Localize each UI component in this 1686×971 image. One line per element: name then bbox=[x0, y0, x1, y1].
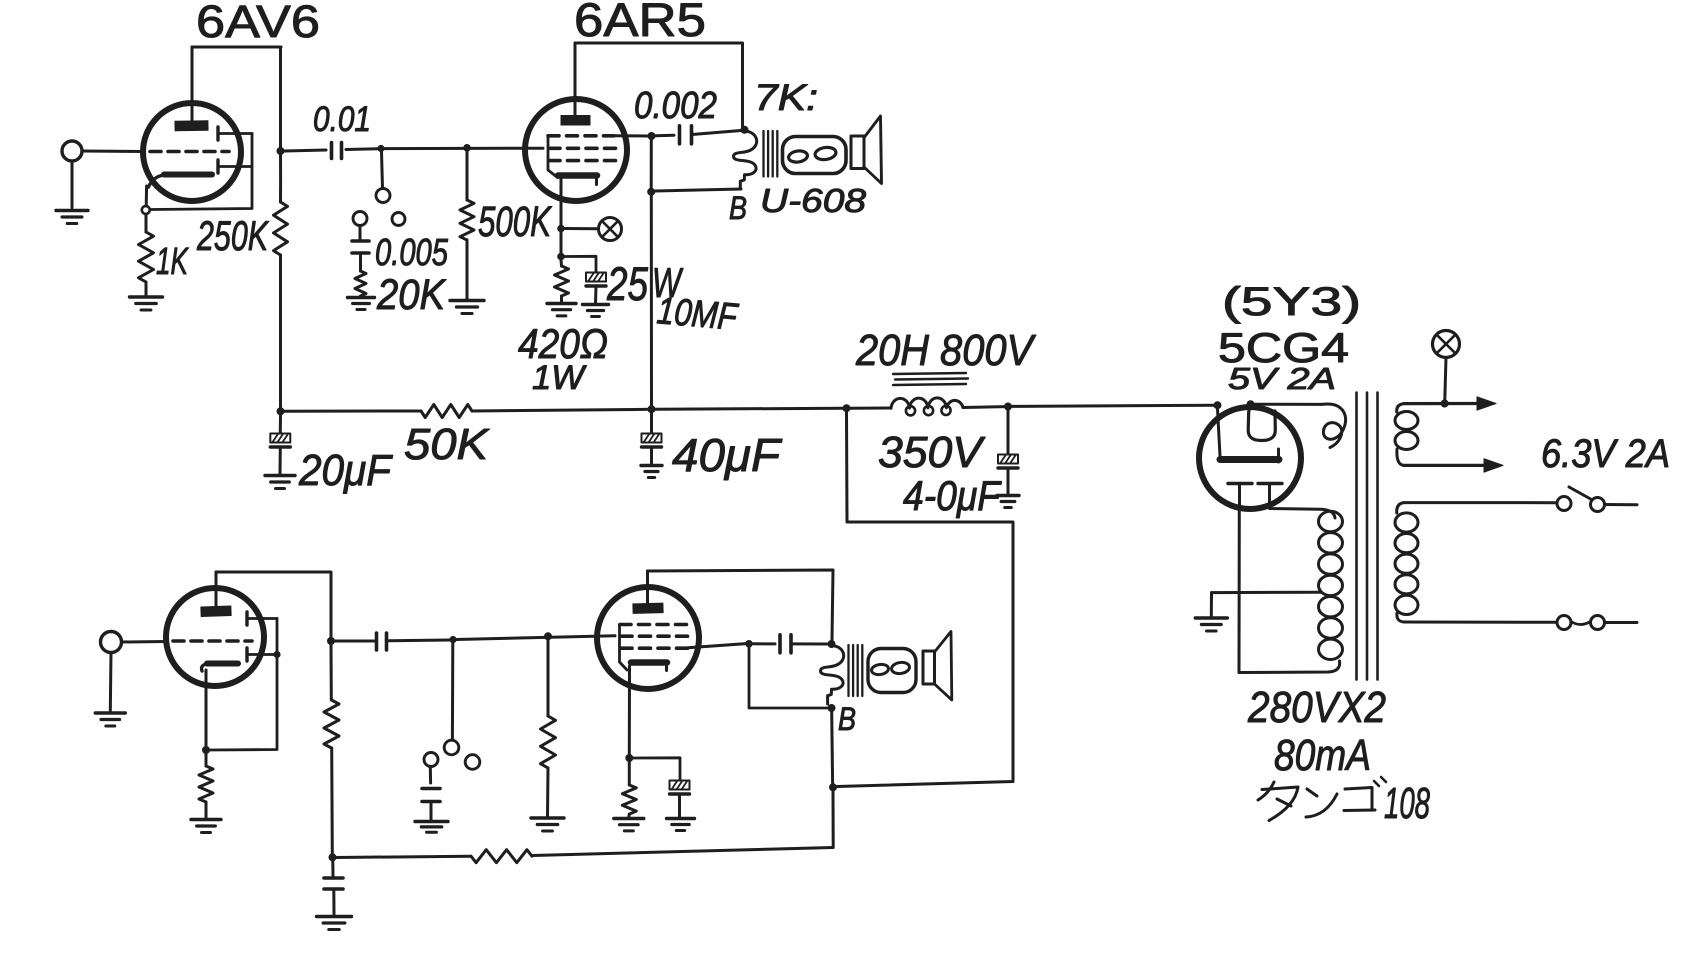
resistor R5 420ohm bbox=[555, 266, 569, 296]
wire rail to choke bbox=[850, 407, 891, 410]
ground (R4 500K) bbox=[450, 301, 484, 314]
label 7K: bbox=[754, 77, 818, 118]
resistor R4 500K bbox=[460, 200, 474, 240]
resistor R8 lead top bbox=[330, 645, 333, 700]
label 0.002 bbox=[634, 85, 717, 127]
node U2 cathode junction 1 bbox=[557, 225, 565, 233]
wire rail segment 4 bbox=[1012, 405, 1215, 406]
tube U1 diode plate lower bbox=[218, 160, 252, 173]
capacitor C1 0.01 bbox=[332, 143, 342, 159]
switch SW2 pole right bbox=[1591, 498, 1605, 512]
label 5CG4 bbox=[1218, 324, 1349, 371]
svg-text:6AV6: 6AV6 bbox=[196, 0, 320, 47]
wire U4 plate lead bbox=[215, 572, 218, 607]
tube U4 triode envelope bbox=[166, 588, 264, 686]
wire primary bottom bbox=[1404, 621, 1557, 624]
switch SW1 contact right bbox=[392, 213, 405, 226]
ground (C12) bbox=[317, 917, 352, 930]
wire switch out bbox=[1605, 503, 1638, 506]
capacitor C5 20uF bbox=[270, 434, 290, 448]
svg-text:0.002: 0.002 bbox=[634, 85, 717, 127]
svg-text:20μF: 20μF bbox=[298, 446, 393, 495]
node tone tap bbox=[377, 145, 384, 152]
svg-text:10MF: 10MF bbox=[655, 290, 740, 339]
wire C5 to ground bbox=[279, 448, 282, 475]
wire R8 to rail bbox=[330, 748, 334, 854]
label 10MF bbox=[655, 290, 740, 339]
node lower rail junction bbox=[329, 853, 337, 861]
label 0.005 bbox=[375, 232, 449, 274]
wire OPT2 B down bbox=[830, 712, 834, 783]
resistor R1 1K bbox=[139, 232, 154, 282]
svg-text:350V: 350V bbox=[878, 428, 986, 477]
tube U5 grid bracket bbox=[620, 625, 628, 671]
wire tone tap down bbox=[382, 152, 383, 188]
svg-text:0.01: 0.01 bbox=[313, 100, 371, 139]
wire U1 plate lead bbox=[191, 47, 194, 121]
wire to C4 bbox=[565, 256, 596, 272]
input jack J2 bbox=[101, 632, 167, 653]
label 25 bbox=[606, 257, 648, 310]
node rail junction 40uF bbox=[648, 405, 656, 413]
capacitor C7 350V 40uF bbox=[998, 455, 1018, 469]
ground (R3 20K) bbox=[348, 298, 375, 310]
capacitor C7 350V 40uF lead bbox=[1007, 410, 1010, 454]
tube U4 grid (dashed) bbox=[173, 639, 252, 643]
wire U5 plate top run bbox=[648, 570, 834, 640]
transformer OPT2 primary bbox=[821, 646, 844, 705]
tube U5 screen grid (dashed) bbox=[621, 646, 688, 650]
wire node B down to rail bbox=[650, 192, 653, 409]
node B+ junction B bbox=[647, 188, 655, 196]
wire R10 to ground bbox=[627, 814, 631, 817]
wire C7 to ground bbox=[1007, 469, 1010, 495]
resistor R7 1K lead bbox=[205, 754, 208, 766]
wire center tap to ground bbox=[1210, 593, 1213, 616]
svg-text:B: B bbox=[729, 190, 747, 226]
svg-text:500K: 500K bbox=[478, 198, 553, 246]
wire rect junction1 to anode bar bbox=[1218, 409, 1221, 456]
wire C2 to R3 bbox=[359, 254, 362, 272]
wire choke out bbox=[963, 405, 1005, 409]
wire 6.3V top bbox=[1404, 402, 1477, 405]
label 0.01 bbox=[313, 100, 371, 139]
wire grid line to U2 bbox=[384, 147, 543, 150]
tube U4 diode plate upper bbox=[247, 612, 277, 625]
label 1W bbox=[532, 359, 587, 397]
tube U2 grid bracket bbox=[548, 136, 558, 178]
svg-text:20K: 20K bbox=[376, 271, 447, 319]
transformer PT1 5V winding bbox=[1322, 404, 1346, 447]
ground (C7) bbox=[997, 496, 1019, 508]
switch SW2 blade bbox=[1569, 487, 1592, 500]
capacitor C8 coupling bbox=[377, 633, 387, 650]
tube U5 top grid (dashed) bbox=[620, 623, 690, 627]
node lower B junction bbox=[829, 783, 837, 791]
tube U3 5CG4 envelope bbox=[1199, 407, 1301, 509]
wire U1 diode plates to cathode bbox=[151, 134, 252, 210]
wire R7 to ground bbox=[205, 802, 208, 818]
ground (R10) bbox=[614, 819, 644, 831]
resistor R4 500K lead bbox=[466, 151, 469, 200]
wire PL2 stem bbox=[1445, 358, 1446, 401]
node OPT2 top bbox=[828, 640, 836, 648]
tube U1 6AV6 envelope bbox=[143, 103, 241, 201]
wire grid line 2 bbox=[456, 636, 615, 640]
resistor R3 20K bbox=[355, 271, 366, 296]
label 5V 2A bbox=[1228, 361, 1336, 396]
wire C1 to grid line bbox=[346, 147, 378, 151]
label 20H 800V bbox=[855, 326, 1036, 375]
capacitor C9 bbox=[422, 789, 440, 802]
wire to pilot lamp bbox=[565, 227, 597, 230]
switch SW4 contact top bbox=[444, 740, 459, 755]
tube U5 plate bbox=[633, 603, 663, 613]
ground (C4) bbox=[583, 305, 609, 317]
ground (R9) bbox=[531, 818, 564, 831]
svg-text:280VX2: 280VX2 bbox=[1247, 683, 1386, 732]
ground (R7) bbox=[191, 820, 221, 833]
wire node A to node B bbox=[650, 136, 653, 192]
choke CH1 core bbox=[893, 373, 968, 385]
tube U3 filament 1 bbox=[1228, 484, 1252, 507]
svg-text:6AR5: 6AR5 bbox=[574, 0, 706, 46]
wire J1 to ground bbox=[71, 161, 74, 208]
node tone tap 2 bbox=[449, 636, 456, 643]
label 350V bbox=[878, 428, 986, 477]
speaker SP1 cone bbox=[851, 116, 882, 184]
wire 350V feed bbox=[837, 412, 1013, 787]
tube U2 6AR5 envelope bbox=[525, 99, 627, 201]
arrow 6.3V lower bbox=[1484, 459, 1503, 472]
capacitor C4 25W 10MF bbox=[586, 273, 606, 287]
label 4-0uF bbox=[903, 472, 1002, 519]
wire C8 to grid line bbox=[389, 639, 450, 643]
svg-text:0.005: 0.005 bbox=[375, 232, 449, 274]
wire primary top to switch bbox=[1404, 501, 1556, 504]
tube U1 grid (dashed) bbox=[150, 150, 229, 154]
svg-text:50K: 50K bbox=[404, 420, 490, 469]
transformer OPT1 core bbox=[764, 131, 778, 177]
node U5 cathode junction bbox=[625, 754, 633, 762]
pilot lamp PL2 bbox=[1433, 331, 1460, 358]
switch SW1 contact left bbox=[353, 212, 367, 226]
svg-text:20H 800V: 20H 800V bbox=[855, 326, 1036, 375]
node rail junction 20uF bbox=[277, 407, 285, 415]
node grid junction 500K bbox=[463, 144, 471, 152]
node rectifier junction 1 bbox=[1214, 401, 1222, 409]
svg-text:1K: 1K bbox=[156, 241, 189, 283]
wire R9 to ground bbox=[546, 768, 550, 816]
capacitor C3 0.002 wire bbox=[655, 134, 674, 138]
switch SW4 contact right bbox=[465, 755, 480, 770]
speaker SP1 voice coil bbox=[783, 137, 847, 174]
ground (C9) bbox=[415, 822, 448, 833]
resistor R1 1K lead bbox=[145, 214, 148, 232]
wire C3 to OPT1 bbox=[692, 131, 741, 135]
switch SW3 link bbox=[1571, 622, 1591, 625]
wire C11 to OPT2 bbox=[792, 642, 828, 645]
wire R4 to ground bbox=[466, 240, 469, 299]
wire U4 cathode lead bbox=[205, 670, 208, 746]
ground (R1) bbox=[130, 297, 163, 310]
capacitor C5 20uF lead bbox=[279, 415, 282, 433]
transformer OPT2 core bbox=[849, 645, 863, 696]
wire tone tap 2 down bbox=[451, 643, 454, 740]
wire R5 to ground bbox=[560, 296, 563, 302]
wire rail to 5V winding bbox=[1254, 403, 1322, 406]
resistor R9 500K lead bbox=[547, 640, 550, 716]
tube U5 cathode bbox=[631, 663, 667, 671]
svg-text:7K:: 7K: bbox=[754, 77, 818, 118]
tube U1 cathode bbox=[149, 175, 213, 188]
wire U2 plate lead bbox=[574, 43, 577, 116]
svg-text:4-0μF: 4-0μF bbox=[903, 472, 1002, 519]
tube U2 cathode bbox=[558, 176, 597, 185]
arrow 6.3V upper bbox=[1477, 397, 1496, 410]
label 250K bbox=[196, 212, 269, 259]
label katakana-Tango bbox=[1258, 777, 1386, 821]
transformer PT1 primary winding bbox=[1395, 503, 1418, 622]
capacitor C12 lead bbox=[331, 861, 334, 876]
node U2 cathode junction 2 bbox=[557, 253, 565, 261]
speaker SP2 cone bbox=[923, 632, 952, 701]
wire filament1 to HV winding bottom bbox=[1239, 661, 1340, 673]
label 50K bbox=[404, 420, 490, 469]
node grid junction 2 bbox=[544, 632, 552, 640]
label U-608 bbox=[760, 182, 867, 219]
wire R1 to ground bbox=[145, 282, 148, 296]
switch SW1 contact top bbox=[376, 189, 390, 203]
svg-text:250K: 250K bbox=[196, 212, 269, 259]
ground (input jack J1) bbox=[56, 211, 88, 224]
wire to C10 bbox=[633, 758, 680, 780]
tube U5 pentode envelope bbox=[597, 587, 699, 689]
resistor R10 420ohm bbox=[622, 785, 636, 814]
wire cathode junctions bbox=[560, 232, 563, 253]
tube U2 suppressor grid (dashed) bbox=[548, 134, 614, 138]
node U5 screen junction bbox=[745, 640, 753, 648]
tube U1 plate bbox=[175, 121, 208, 131]
label 20uF bbox=[298, 446, 393, 495]
svg-text:6.3V 2A: 6.3V 2A bbox=[1541, 432, 1670, 476]
ground (R5 420ohm) bbox=[547, 304, 576, 316]
resistor R9 500K bbox=[541, 716, 556, 768]
label 6AR5 bbox=[574, 0, 706, 46]
wire node B to OPT1 bottom bbox=[655, 189, 741, 191]
capacitor C6 40uF lead bbox=[650, 413, 653, 433]
wire U4 diode plates to cathode bbox=[210, 619, 277, 751]
wire U2 plate top run bbox=[575, 43, 743, 127]
wire U1 cathode lead bbox=[145, 186, 148, 206]
tube U4 plate bbox=[201, 606, 231, 617]
wire C4 to ground bbox=[594, 287, 598, 304]
node screen junction A bbox=[648, 132, 656, 140]
label 280VX2 bbox=[1247, 683, 1386, 732]
svg-text:25: 25 bbox=[606, 257, 648, 310]
svg-text:B: B bbox=[838, 701, 856, 737]
wire U1 plate top run bbox=[192, 47, 281, 149]
label 108 bbox=[1384, 779, 1430, 828]
input jack J1 bbox=[62, 141, 144, 161]
wire C6 to ground bbox=[650, 448, 653, 465]
svg-text:(5Y3): (5Y3) bbox=[1222, 280, 1361, 324]
wire U5 plate lead bbox=[646, 571, 649, 604]
wire C12 to ground bbox=[332, 889, 335, 914]
wire center tap bbox=[1212, 591, 1322, 594]
label B (OPT1) bbox=[729, 190, 747, 226]
switch SW3 pole left bbox=[1557, 616, 1571, 630]
capacitor C11 wire bbox=[753, 642, 775, 645]
resistor R10 cathode lead bbox=[628, 762, 631, 785]
wire J2 to ground bbox=[109, 653, 113, 712]
svg-text:U-608: U-608 bbox=[760, 182, 867, 219]
capacitor C2 0.005 bbox=[352, 241, 369, 253]
switch SW4 contact left bbox=[424, 753, 438, 767]
resistor R7 1K bbox=[199, 766, 213, 802]
label W bbox=[652, 259, 683, 306]
label 1K bbox=[156, 241, 189, 283]
wire rail segment 2 bbox=[472, 409, 652, 411]
resistor R11 50K bbox=[471, 850, 532, 863]
wire switch3 out bbox=[1605, 621, 1638, 624]
label 80mA bbox=[1274, 731, 1371, 780]
node rail junction 350V bbox=[1004, 403, 1012, 411]
tube U4 diode plate lower bbox=[247, 648, 277, 661]
ground (C6 40uF) bbox=[641, 466, 662, 478]
node 6.3V junction bbox=[1441, 400, 1449, 408]
capacitor C12 bbox=[324, 878, 343, 889]
svg-text:5V 2A: 5V 2A bbox=[1228, 361, 1336, 396]
resistor R6 50K bbox=[421, 405, 472, 418]
svg-text:40μF: 40μF bbox=[672, 429, 783, 481]
wire rail segment 3 bbox=[655, 407, 844, 411]
wire lower rail right bbox=[533, 848, 833, 856]
choke CH1 winding bbox=[891, 398, 963, 415]
transformer PT1 6.3V winding bbox=[1395, 404, 1418, 466]
tube U5 control grid (dashed) bbox=[621, 634, 692, 638]
ground (C10) bbox=[667, 819, 695, 831]
capacitor C10 bypass bbox=[670, 781, 690, 795]
capacitor C6 40uF bbox=[642, 434, 662, 448]
label B (OPT2) bbox=[838, 701, 856, 737]
node rail junction choke-in bbox=[843, 404, 851, 412]
tube U2 control grid (dashed) bbox=[549, 147, 622, 151]
wire C10 to ground bbox=[678, 795, 681, 818]
ground (C5 20uF) bbox=[265, 476, 295, 489]
wire 6.3V bottom bbox=[1404, 464, 1484, 467]
node plate junction A1 bbox=[277, 147, 285, 155]
tube U2 plate bbox=[561, 116, 590, 126]
transformer PT1 core bbox=[1357, 393, 1378, 680]
svg-text:1W: 1W bbox=[532, 359, 587, 397]
node OPT2 B terminal bbox=[828, 704, 836, 712]
transformer OPT1 primary bbox=[734, 131, 757, 189]
wire U2 cathode lead bbox=[560, 179, 563, 225]
transformer PT1 HV winding 280Vx2 bbox=[1319, 511, 1343, 659]
switch SW2 pole left bbox=[1557, 497, 1571, 511]
resistor R8 250K bbox=[324, 700, 339, 748]
node U1 cathode junction bbox=[142, 206, 150, 214]
wire lower rail left bbox=[336, 856, 471, 857]
tube U3 anode bar bbox=[1220, 449, 1279, 462]
resistor R5 420ohm lead bbox=[560, 260, 564, 266]
tube U2 bottom grid (dashed) bbox=[549, 159, 622, 163]
label 420ohm bbox=[518, 320, 608, 367]
wire lower B down bbox=[832, 791, 835, 846]
wire filament2 to winding top bbox=[1270, 506, 1336, 518]
capacitor C9 lead bbox=[429, 767, 432, 784]
svg-text:108: 108 bbox=[1384, 779, 1430, 828]
label 6.3V 2A bbox=[1541, 432, 1670, 476]
tube U3 filament 2 bbox=[1258, 484, 1282, 507]
label 6AV6 bbox=[196, 0, 320, 47]
capacitor C11 0.002 bbox=[780, 635, 791, 653]
label (5Y3) bbox=[1222, 280, 1361, 324]
wire rail segment 1 bbox=[284, 410, 421, 413]
ground (center tap) bbox=[1195, 618, 1227, 631]
tube U4 cathode bbox=[202, 664, 238, 672]
label 20K bbox=[376, 271, 447, 319]
tube U3 plate cup bbox=[1248, 404, 1275, 441]
capacitor C3 0.002 bbox=[680, 126, 692, 144]
wire U5 cathode lead bbox=[628, 666, 631, 754]
node U4 plate junction bbox=[327, 637, 335, 645]
capacitor C1 0.01 wire bbox=[284, 150, 326, 151]
tube U1 diode plate upper bbox=[218, 127, 252, 140]
node U4 cathode junction bbox=[202, 746, 210, 754]
label 500K bbox=[478, 198, 553, 246]
wire screen junction down bbox=[749, 648, 827, 709]
speaker SP2 voice coil bbox=[868, 649, 916, 693]
wire filament1 down bbox=[1238, 506, 1241, 673]
label 40uF bbox=[672, 429, 783, 481]
wire U2 screen to node A bbox=[612, 134, 648, 137]
ground (input jack J2) bbox=[95, 713, 125, 726]
pilot lamp PL1 bbox=[599, 218, 622, 241]
wire U4 plate top run bbox=[216, 572, 331, 638]
capacitor C2 0.005 lead bbox=[359, 226, 362, 240]
node rectifier junction 2 bbox=[1247, 400, 1255, 408]
wire C9 to ground bbox=[430, 802, 433, 821]
wire U5 screen to node bbox=[688, 644, 746, 648]
resistor R2 250K bbox=[274, 151, 288, 411]
node U4 diode junction bbox=[273, 651, 280, 658]
switch SW3 pole right bbox=[1591, 616, 1605, 630]
capacitor C8 coupling wire bbox=[335, 640, 374, 643]
svg-text:80mA: 80mA bbox=[1274, 731, 1371, 780]
node OPT1 top bbox=[741, 126, 749, 134]
